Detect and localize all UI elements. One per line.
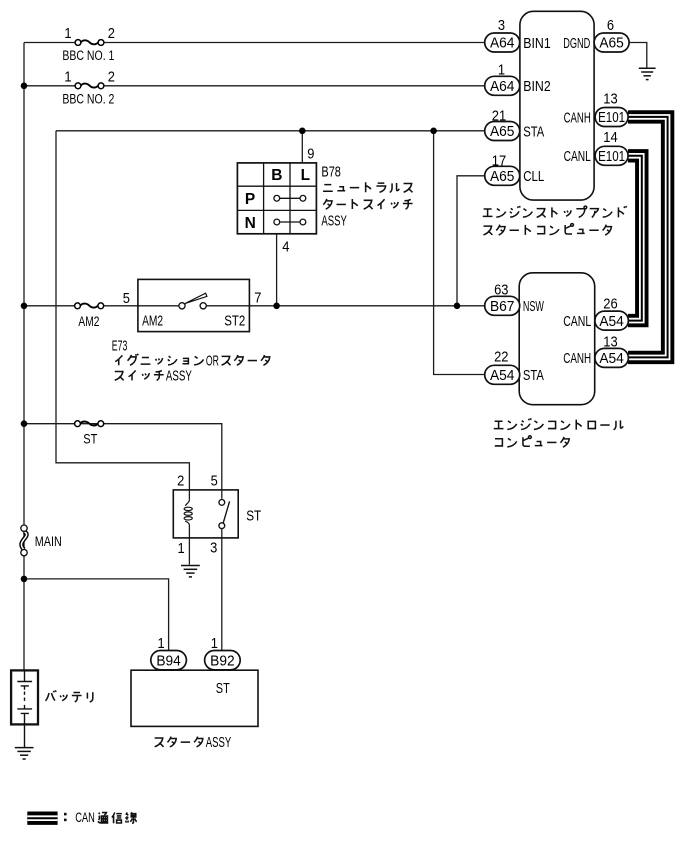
svg-text:AM2: AM2 (142, 313, 163, 329)
svg-text:BBC NO. 2: BBC NO. 2 (62, 91, 114, 106)
svg-text:1: 1 (498, 63, 505, 79)
svg-text:ST: ST (246, 509, 261, 525)
svg-text:1: 1 (158, 636, 165, 652)
svg-text:5: 5 (123, 291, 130, 307)
svg-text:9: 9 (307, 147, 314, 163)
svg-text:B: B (271, 167, 282, 184)
svg-text:ASSY: ASSY (166, 368, 192, 384)
svg-text:E101: E101 (598, 110, 625, 126)
svg-text:NSW: NSW (523, 299, 544, 315)
svg-text:A54: A54 (599, 314, 624, 330)
svg-text:1: 1 (178, 541, 185, 557)
svg-text:B78: B78 (321, 165, 341, 181)
svg-text:CAN: CAN (75, 809, 95, 825)
svg-text:BIN2: BIN2 (523, 79, 550, 95)
svg-text:ASSY: ASSY (321, 214, 347, 230)
svg-text:CANL: CANL (563, 314, 591, 330)
svg-text:STA: STA (523, 368, 544, 384)
svg-text:1: 1 (211, 636, 218, 652)
svg-text:OR: OR (206, 353, 219, 369)
svg-text:ST2: ST2 (224, 313, 245, 329)
svg-text:21: 21 (492, 109, 506, 125)
svg-text:E73: E73 (112, 339, 128, 355)
svg-text:ASSY: ASSY (206, 735, 232, 751)
svg-text:1: 1 (64, 26, 71, 42)
svg-text:CLL: CLL (523, 169, 544, 185)
svg-text:2: 2 (108, 26, 115, 42)
svg-text:3: 3 (498, 18, 505, 34)
svg-text:A54: A54 (490, 368, 515, 384)
svg-text:A54: A54 (599, 351, 624, 367)
svg-text:4: 4 (282, 240, 289, 256)
svg-text:17: 17 (492, 153, 506, 169)
svg-text:N: N (245, 215, 256, 232)
svg-text:DGND: DGND (563, 36, 590, 52)
svg-text:MAIN: MAIN (35, 533, 62, 549)
svg-text:BIN1: BIN1 (523, 36, 550, 52)
svg-text:5: 5 (211, 474, 218, 490)
svg-text:ST: ST (216, 681, 230, 697)
svg-text:14: 14 (603, 130, 617, 146)
svg-text:L: L (301, 167, 310, 184)
svg-text:A64: A64 (490, 36, 515, 52)
svg-text:2: 2 (108, 69, 115, 85)
svg-text:E101: E101 (598, 149, 625, 165)
svg-text:63: 63 (494, 282, 508, 298)
svg-text:26: 26 (603, 296, 617, 312)
svg-text:A65: A65 (490, 169, 515, 185)
svg-text:A65: A65 (599, 36, 624, 52)
svg-text:13: 13 (603, 91, 617, 107)
svg-text:B92: B92 (210, 653, 235, 669)
svg-text:13: 13 (603, 334, 617, 350)
svg-text:CANL: CANL (564, 149, 591, 165)
svg-text:BBC NO. 1: BBC NO. 1 (62, 48, 114, 63)
svg-text:6: 6 (607, 18, 614, 34)
svg-text:ST: ST (83, 431, 97, 447)
svg-text:3: 3 (210, 541, 217, 557)
svg-text:CANH: CANH (564, 110, 591, 126)
svg-text:A64: A64 (490, 79, 515, 95)
svg-text:1: 1 (64, 69, 71, 85)
svg-text:B94: B94 (156, 653, 181, 669)
svg-text:CANH: CANH (563, 351, 591, 367)
svg-text:A65: A65 (490, 124, 515, 140)
svg-text:P: P (245, 191, 255, 208)
svg-text:B67: B67 (490, 299, 515, 315)
svg-text:2: 2 (177, 474, 184, 490)
svg-text:STA: STA (523, 124, 544, 140)
svg-text:7: 7 (254, 291, 261, 307)
svg-text:AM2: AM2 (78, 313, 99, 329)
svg-text:22: 22 (494, 349, 508, 365)
